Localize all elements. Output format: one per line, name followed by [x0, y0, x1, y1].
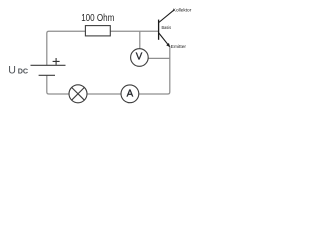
wire: junction down to voltmeter top — [139, 31, 141, 49]
wire: voltmeter right to emitter rail — [148, 57, 170, 59]
transistor Q1 emitter lead — [159, 33, 170, 46]
wire: emitter rail down and left to ammeter — [139, 46, 170, 94]
transistor Q1 emitter arrowhead — [166, 43, 170, 47]
transistor Q1 base bar — [158, 20, 160, 40]
wire: battery positive up and across top to resistor — [47, 31, 86, 65]
battery negative plate — [39, 74, 55, 76]
svg-text:100 Ohm: 100 Ohm — [81, 13, 114, 24]
wire: lamp left to bottom corner up to battery negative — [47, 75, 69, 94]
transistor Q1 collector lead — [159, 10, 175, 23]
wire: resistor to transistor base bar — [110, 30, 158, 32]
lamp cross stroke 1 — [72, 87, 85, 100]
svg-text:V: V — [136, 52, 143, 63]
svg-text:Kollektor: Kollektor — [173, 7, 192, 13]
resistor R1 100 Ohm — [85, 26, 110, 36]
voltmeter V — [131, 49, 149, 67]
lamp cross stroke 2 — [72, 87, 85, 100]
battery plus sign — [53, 58, 60, 65]
svg-text:UDC: UDC — [8, 65, 28, 77]
lamp — [69, 85, 87, 103]
wire: ammeter to lamp — [87, 93, 121, 95]
svg-text:Emitter: Emitter — [171, 44, 187, 50]
svg-text:A: A — [127, 89, 134, 100]
ammeter A — [121, 85, 139, 103]
battery positive plate — [31, 64, 66, 66]
svg-text:Basis: Basis — [162, 25, 172, 31]
